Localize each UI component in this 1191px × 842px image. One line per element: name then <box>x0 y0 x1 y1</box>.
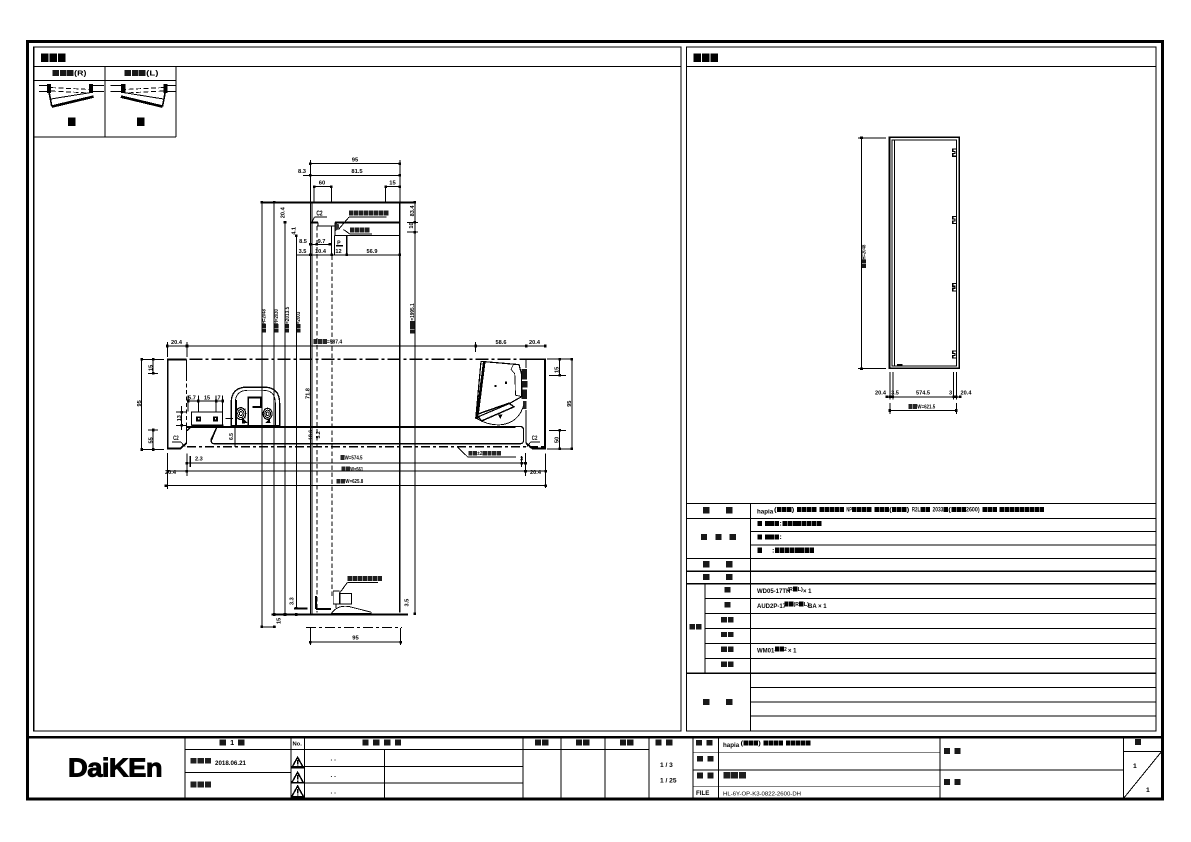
left panel title 断面図 <box>41 54 49 63</box>
header 左吊元(L) <box>124 70 131 76</box>
door end / latch assembly (tilted section) <box>476 361 528 424</box>
svg-text:3.5: 3.5 <box>299 249 307 255</box>
dash-dot line below floor <box>306 627 402 629</box>
svg-text:20.4: 20.4 <box>280 206 286 218</box>
name rows lines <box>693 753 1123 787</box>
svg-text:83.4: 83.4 <box>410 205 416 217</box>
品番 sub rows <box>705 584 1156 674</box>
svg-text:W=621.5: W=621.5 <box>917 404 935 410</box>
svg-text:574.5: 574.5 <box>916 390 930 396</box>
svg-text:56.9: 56.9 <box>367 249 378 255</box>
label 見切 <box>721 662 727 667</box>
svg-text:20.4: 20.4 <box>171 340 183 346</box>
svg-text::: : <box>772 547 775 554</box>
ceiling line <box>260 201 416 203</box>
svg-text:15: 15 <box>277 618 283 624</box>
svg-text:WD05-17TH: WD05-17TH <box>757 589 790 595</box>
head frame (上枠) section <box>310 202 400 235</box>
header 右吊元(R) <box>52 70 59 76</box>
label 型式 <box>703 507 710 513</box>
label C2 left post chamfer <box>172 435 185 447</box>
svg-text:1 / 25: 1 / 25 <box>660 778 677 785</box>
svg-text:H=2048: H=2048 <box>861 245 867 260</box>
svg-text:=2003: =2003 <box>296 312 302 324</box>
door leaf bottom edge <box>316 608 331 610</box>
svg-text:20.4: 20.4 <box>961 390 973 396</box>
svg-text:15: 15 <box>204 396 210 402</box>
plan left dims 95 / 15 / 55 <box>137 359 164 449</box>
svg-text:1: 1 <box>1133 763 1137 770</box>
svg-text:4.1: 4.1 <box>292 227 298 235</box>
svg-text:C2: C2 <box>316 210 322 217</box>
label 戸当りストッパー with leader <box>339 210 389 229</box>
dim line 枠外H=2048 <box>261 202 267 627</box>
図名 content 三面図 <box>723 772 730 778</box>
label 品番 <box>689 624 695 629</box>
svg-text:. .: . . <box>331 789 337 796</box>
仕上げ row2 <box>757 534 761 539</box>
svg-text:15: 15 <box>554 367 560 373</box>
svg-text::: : <box>779 520 782 527</box>
svg-text:(R: (R <box>788 587 794 593</box>
svg-text:2.3: 2.3 <box>195 456 203 462</box>
label C2 with leader <box>312 210 328 222</box>
svg-text:No.: No. <box>293 742 303 748</box>
svg-text:(R): (R) <box>74 68 87 77</box>
svg-text:C2: C2 <box>173 435 179 442</box>
件名 label <box>944 748 950 754</box>
内 label <box>137 117 145 126</box>
revision warning triangles <box>292 757 304 796</box>
front view door outline <box>890 137 960 368</box>
left panel frame (cross-section view) <box>34 47 681 731</box>
svg-text:C2: C2 <box>532 435 538 442</box>
svg-text:20.4: 20.4 <box>875 390 887 396</box>
bottom dim 95 <box>310 628 400 645</box>
見積 label <box>697 756 703 762</box>
品番 枠 content <box>757 587 812 595</box>
svg-text:3.3: 3.3 <box>290 597 296 605</box>
No. column header <box>293 742 303 748</box>
svg-text:3: 3 <box>520 457 523 463</box>
label 下部ストッパー with leader <box>340 576 382 593</box>
plan right dims 15 / 50 / 95 <box>547 359 573 449</box>
floor line and bottom details <box>271 608 408 614</box>
改訂履歴 header <box>362 739 368 745</box>
dim 60 / 15 <box>314 180 400 202</box>
改訂日 <box>190 781 196 787</box>
front view hinge marks <box>953 149 957 358</box>
dim chain 枠外W=625.8 <box>166 479 546 486</box>
left frame post (hinge jamb) <box>168 359 187 448</box>
svg-text:1: 1 <box>1146 787 1150 794</box>
svg-text:R2L: R2L <box>912 507 920 514</box>
svg-text:(L): (L) <box>146 68 159 77</box>
svg-text:(R: (R <box>794 602 800 608</box>
spec table outer grid <box>686 503 1156 731</box>
svg-text:2018.06.21: 2018.06.21 <box>215 760 247 767</box>
svg-text:8.5: 8.5 <box>299 239 307 245</box>
scale values <box>660 762 677 785</box>
hinge centre bracket <box>226 397 261 425</box>
15 dim stub at floor <box>262 626 276 628</box>
svg-text:3.5: 3.5 <box>405 599 411 607</box>
right panel frame (front view) <box>686 47 1156 731</box>
label 把手 <box>721 617 727 622</box>
swing symbol R <box>39 84 104 106</box>
dim 13 left of plate <box>176 406 187 430</box>
仕上げ sub row lines <box>751 532 1156 545</box>
第1版 <box>219 739 226 745</box>
内 label <box>68 117 76 126</box>
図名 label <box>697 773 703 779</box>
名称 label <box>696 740 702 746</box>
swing symbol L <box>110 84 175 106</box>
svg-text:8.3: 8.3 <box>298 169 307 175</box>
label 枠 <box>725 587 731 592</box>
備考 sub row lines <box>751 688 1156 717</box>
品番 金具 content <box>757 647 797 655</box>
svg-text:AUD2P-17: AUD2P-17 <box>757 604 787 610</box>
vertical section: head jamb detail <box>0 0 1 1</box>
dim line 扉高=2013.5 <box>280 206 290 614</box>
svg-text:55: 55 <box>148 437 154 443</box>
svg-text:NP: NP <box>846 507 852 514</box>
swing-direction table <box>34 67 177 137</box>
svg-text:1 / 3: 1 / 3 <box>660 762 673 769</box>
leader slash at plate corner <box>187 426 192 431</box>
door leaf (plan) long bar <box>187 427 524 444</box>
hinge arm vertical + tiny 6.5 dim <box>229 426 235 447</box>
作成 header <box>620 740 626 746</box>
svg-text:W=625.8: W=625.8 <box>345 479 363 485</box>
svg-text:): ) <box>792 507 795 514</box>
svg-text:=2013.5: =2013.5 <box>285 307 291 324</box>
svg-text:): ) <box>907 507 910 514</box>
svg-text:hapia: hapia <box>757 509 774 516</box>
dim line 開口H=2030 <box>274 202 280 614</box>
部屋 label <box>944 779 950 785</box>
front view left height dim 枠外H=2048 <box>858 138 886 369</box>
svg-text:20.4: 20.4 <box>529 340 541 346</box>
仕上げ row1 <box>757 521 761 526</box>
hinge mounting plate with screws <box>191 412 223 425</box>
revision rows <box>185 750 649 783</box>
仕上げ row3 <box>757 548 761 553</box>
door leaf bottom edge vertical <box>315 596 317 609</box>
dim 8.3 / 81.5 <box>298 169 400 175</box>
svg-text:5.2: 5.2 <box>316 431 322 438</box>
svg-text:WM01-: WM01- <box>757 649 776 655</box>
縮尺 header <box>655 740 661 746</box>
svg-text:BA × 1: BA × 1 <box>808 604 827 610</box>
品番 扉 content <box>757 602 827 610</box>
svg-text:=587.4: =587.4 <box>327 339 343 345</box>
dims 8.5 9.7 / 3.5 10.4 12 56.9 and dim line <box>296 236 400 256</box>
right panel title 正面図 <box>694 54 702 63</box>
svg-text:H=2030: H=2030 <box>274 309 280 324</box>
label 備考 <box>703 699 710 705</box>
label 下枠 <box>721 632 727 637</box>
revision dots rows <box>331 756 337 796</box>
戸先ゴム rubber seal detail <box>335 223 339 231</box>
型式 content text <box>757 507 1044 516</box>
svg-text:71.8: 71.8 <box>306 388 312 399</box>
svg-text:95: 95 <box>137 400 143 406</box>
hinge closer arch outline <box>231 387 279 426</box>
right frame post (latch jamb) <box>526 359 545 448</box>
svg-text:1: 1 <box>230 738 234 747</box>
dim chain 20.4 / 開口W=561 / 20.4 <box>165 467 546 477</box>
plan view dash-dot wall centre lines <box>167 359 545 447</box>
svg-text:50: 50 <box>554 437 560 443</box>
dims 71.8 / 18.6 / 5.2 <box>306 388 323 440</box>
plan top dim chain 20.4 / 枠開口=587.4 / 58.6 / 20.4 <box>167 339 545 357</box>
svg-text:DaiKEn: DaiKEn <box>68 753 162 783</box>
svg-text:95: 95 <box>352 636 359 642</box>
svg-text:6.5: 6.5 <box>229 433 235 440</box>
svg-text:): ) <box>758 740 761 747</box>
dims 5.7 15 7 over plate <box>188 396 222 412</box>
svg-text:2033: 2033 <box>933 507 944 514</box>
right dim line 83.4 / 10 and 吊扉高=1995.1 <box>402 202 419 613</box>
revision columns <box>185 737 1123 799</box>
label 金具 <box>721 647 727 652</box>
svg-text:18.6: 18.6 <box>309 430 315 440</box>
svg-text:H=2048: H=2048 <box>262 309 268 324</box>
label 把手 <box>703 561 710 567</box>
svg-text:95: 95 <box>567 401 573 407</box>
svg-text:. .: . . <box>331 756 337 763</box>
extension lines below plan <box>168 453 546 489</box>
label C2 right post chamfer <box>527 435 540 447</box>
label 質量 <box>703 574 710 580</box>
svg-text:60: 60 <box>319 180 325 186</box>
title block frame <box>28 737 1163 799</box>
svg-text:HL-6Y-OP-K3-0822-2600-DH: HL-6Y-OP-K3-0822-2600-DH <box>723 791 801 797</box>
承認 header <box>535 740 541 746</box>
dim chain 2.3 / 扉W=574.5 / 3 <box>187 455 526 467</box>
svg-text:FILE: FILE <box>696 790 709 797</box>
svg-text:=1995.1: =1995.1 <box>410 303 416 320</box>
svg-text:× 1: × 1 <box>803 589 812 595</box>
svg-text:W=574.5: W=574.5 <box>345 455 363 461</box>
front view bottom dims <box>875 372 972 414</box>
名称 content <box>723 740 810 749</box>
svg-text:12: 12 <box>335 249 341 255</box>
svg-text:. .: . . <box>331 772 337 779</box>
svg-text:2600): 2600) <box>966 507 980 514</box>
label 扉 <box>725 602 731 607</box>
svg-text:hapia: hapia <box>723 742 740 749</box>
dim 95 (head frame width) <box>310 158 400 202</box>
確認 header <box>576 740 582 746</box>
label 建付±2調整可能 with leader <box>457 447 516 458</box>
下部ストッパー floor stopper <box>331 591 371 614</box>
svg-text:58.6: 58.6 <box>496 340 507 346</box>
制定日 2018.06.21 <box>190 758 246 767</box>
svg-text:13: 13 <box>177 415 183 421</box>
svg-text:3: 3 <box>949 390 952 396</box>
dim line 2003 <box>292 227 302 608</box>
svg-text:20.4: 20.4 <box>530 470 542 476</box>
label 戸先ゴム with leader <box>344 227 373 234</box>
頁 page cell <box>1123 739 1162 799</box>
svg-text:× 1: × 1 <box>788 649 797 655</box>
svg-text:15: 15 <box>148 365 154 371</box>
svg-text:7: 7 <box>217 396 220 402</box>
svg-text:15: 15 <box>389 180 396 186</box>
DAIKEN logo <box>68 753 162 783</box>
hinge rollers <box>236 408 272 424</box>
svg-text::: : <box>779 534 782 541</box>
svg-text:W=561: W=561 <box>350 467 363 473</box>
bottom small dims 3.3 / 15 / 3.5 <box>277 597 411 624</box>
svg-text:±2: ±2 <box>477 451 482 457</box>
svg-text:81.5: 81.5 <box>351 169 363 175</box>
label 仕上げ <box>701 534 707 540</box>
svg-text:95: 95 <box>352 158 359 164</box>
dimension tick dots <box>140 137 961 644</box>
wall and door leaf vertical lines <box>310 202 400 614</box>
